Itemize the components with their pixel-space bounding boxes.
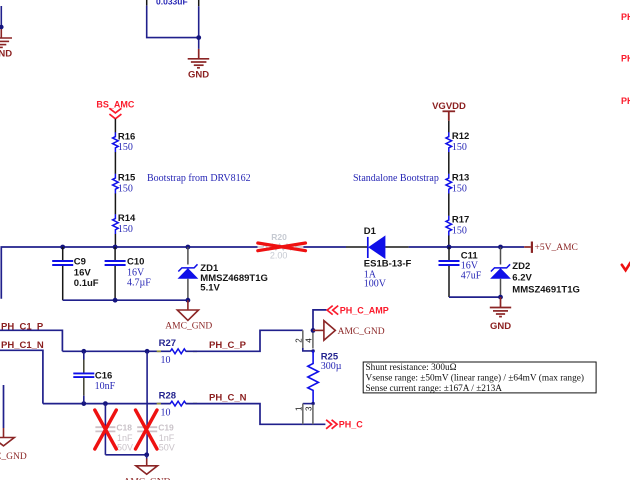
- svg-text:AMC_GND: AMC_GND: [0, 452, 27, 462]
- svg-text:PH_C_AMP: PH_C_AMP: [340, 305, 389, 315]
- svg-text:10: 10: [161, 355, 171, 366]
- svg-text:R15: R15: [118, 173, 136, 184]
- svg-text:150: 150: [452, 225, 467, 236]
- svg-text:PH: PH: [621, 54, 630, 64]
- svg-text:D1: D1: [364, 226, 377, 237]
- svg-text:3: 3: [305, 406, 314, 411]
- svg-text:C19: C19: [158, 423, 174, 433]
- svg-text:47uF: 47uF: [461, 271, 482, 282]
- svg-text:ZD2: ZD2: [512, 261, 530, 272]
- svg-text:0.1uF: 0.1uF: [74, 278, 99, 289]
- svg-text:300µ: 300µ: [321, 361, 342, 372]
- svg-text:Standalone Bootstrap: Standalone Bootstrap: [353, 173, 439, 184]
- svg-text:1nF: 1nF: [159, 433, 175, 443]
- svg-text:MMSZ4691T1G: MMSZ4691T1G: [512, 284, 580, 295]
- svg-text:GND: GND: [0, 49, 12, 60]
- svg-text:PH_C: PH_C: [339, 420, 364, 430]
- svg-text:GND: GND: [490, 321, 511, 332]
- svg-text:R20: R20: [271, 232, 287, 242]
- svg-text:2.00: 2.00: [270, 251, 288, 261]
- svg-text:Shunt resistance: 300uΩ: Shunt resistance: 300uΩ: [366, 363, 457, 373]
- svg-text:150: 150: [118, 142, 133, 153]
- svg-text:R13: R13: [452, 173, 469, 184]
- svg-text:10nF: 10nF: [95, 381, 116, 392]
- svg-text:PH: PH: [621, 96, 630, 106]
- svg-text:PH_C_N: PH_C_N: [209, 393, 247, 404]
- svg-text:R17: R17: [452, 215, 469, 226]
- svg-text:AMC_GND: AMC_GND: [338, 327, 385, 337]
- svg-text:Vsense range: ±50mV (linear ra: Vsense range: ±50mV (linear range) / ±64…: [366, 373, 584, 384]
- svg-text:R12: R12: [452, 131, 469, 142]
- svg-text:VGVDD: VGVDD: [432, 101, 466, 112]
- svg-text:4.7µF: 4.7µF: [127, 278, 151, 289]
- svg-text:10: 10: [161, 407, 171, 418]
- svg-text:5.1V: 5.1V: [200, 283, 220, 294]
- svg-text:C16: C16: [95, 370, 112, 381]
- svg-text:PH: PH: [621, 12, 630, 22]
- svg-text:1: 1: [295, 406, 304, 411]
- svg-text:Bootstrap from DRV8162: Bootstrap from DRV8162: [147, 173, 251, 184]
- svg-text:50V: 50V: [159, 443, 175, 453]
- svg-text:R16: R16: [118, 131, 135, 142]
- svg-text:50V: 50V: [117, 443, 133, 453]
- svg-text:4: 4: [305, 338, 314, 343]
- svg-text:C18: C18: [116, 423, 132, 433]
- svg-text:2: 2: [295, 338, 304, 343]
- svg-text:C9: C9: [74, 256, 86, 267]
- svg-text:R28: R28: [159, 391, 176, 402]
- svg-text:150: 150: [452, 183, 467, 194]
- svg-text:AMC_GND: AMC_GND: [165, 322, 212, 332]
- svg-text:ES1B-13-F: ES1B-13-F: [364, 259, 412, 270]
- svg-text:150: 150: [118, 224, 133, 235]
- svg-text:150: 150: [118, 184, 133, 195]
- svg-text:100V: 100V: [364, 279, 387, 290]
- svg-text:1nF: 1nF: [117, 433, 133, 443]
- svg-text:0.033uF: 0.033uF: [156, 0, 188, 7]
- svg-text:GND: GND: [188, 70, 209, 81]
- svg-text:PH_C_P: PH_C_P: [209, 340, 247, 351]
- svg-text:150: 150: [452, 142, 467, 153]
- svg-text:C10: C10: [127, 256, 144, 267]
- svg-text:6.2V: 6.2V: [512, 273, 532, 284]
- svg-text:PH_C1_N: PH_C1_N: [1, 340, 44, 351]
- svg-text:R27: R27: [159, 338, 176, 349]
- svg-text:Sense current range: ±167A / ±: Sense current range: ±167A / ±213A: [366, 384, 503, 394]
- svg-text:R14: R14: [118, 213, 136, 224]
- svg-text:+5V_AMC: +5V_AMC: [535, 243, 578, 253]
- svg-text:BS_AMC: BS_AMC: [96, 99, 135, 109]
